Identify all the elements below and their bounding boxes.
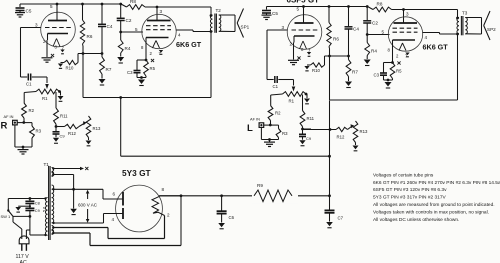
svg-text:C3: C3 <box>374 73 380 78</box>
svg-text:R8: R8 <box>377 2 383 7</box>
svg-text:4: 4 <box>178 33 181 38</box>
svg-text:R5: R5 <box>150 66 156 71</box>
svg-text:R8: R8 <box>130 0 136 4</box>
svg-text:T3: T3 <box>462 11 468 16</box>
svg-text:6K6 GT: 6K6 GT <box>176 40 202 49</box>
svg-text:6K6 GT PIN #1 260v PIN #4 270v: 6K6 GT PIN #1 260v PIN #4 270v PIN #2 6.… <box>373 180 500 186</box>
svg-text:R4: R4 <box>125 46 131 51</box>
svg-text:5: 5 <box>50 4 53 9</box>
svg-text:R2: R2 <box>275 111 281 116</box>
svg-text:R3: R3 <box>282 131 288 136</box>
svg-text:6SF5 GT: 6SF5 GT <box>287 0 320 5</box>
svg-text:R6: R6 <box>333 37 339 42</box>
svg-text:C6: C6 <box>229 215 235 220</box>
svg-text:C9: C9 <box>35 208 40 213</box>
svg-text:Voltages of certain tube pins: Voltages of certain tube pins <box>373 172 434 178</box>
svg-text:5.6: 5.6 <box>43 207 47 212</box>
svg-text:6SF5 GT PIN #3 120v PIN #8 6.3: 6SF5 GT PIN #3 120v PIN #8 6.3v <box>373 187 447 193</box>
svg-text:SW 1: SW 1 <box>1 214 12 219</box>
svg-text:3: 3 <box>406 12 409 17</box>
svg-text:R5: R5 <box>396 69 402 74</box>
svg-text:R13: R13 <box>360 129 368 134</box>
svg-text:R10: R10 <box>66 66 74 71</box>
svg-text:3: 3 <box>35 23 38 28</box>
svg-text:6K6 GT: 6K6 GT <box>423 43 449 52</box>
svg-text:AF IN: AF IN <box>250 117 260 122</box>
svg-text:C5: C5 <box>272 11 278 16</box>
svg-text:All voltages DC unless otherwi: All voltages DC unless otherwise shown. <box>373 217 459 223</box>
svg-text:C7: C7 <box>338 216 344 221</box>
svg-text:C3: C3 <box>127 70 133 75</box>
svg-text:R1: R1 <box>42 96 48 101</box>
svg-text:4: 4 <box>425 35 428 40</box>
svg-text:3: 3 <box>160 9 163 14</box>
svg-text:600 V AC: 600 V AC <box>78 203 98 208</box>
svg-text:2: 2 <box>43 39 46 44</box>
svg-text:R11: R11 <box>307 116 315 121</box>
svg-text:R11: R11 <box>60 114 68 119</box>
svg-text:R1: R1 <box>289 99 295 104</box>
svg-text:L: L <box>247 123 253 134</box>
svg-text:All voltages are measured from: All voltages are measured from ground to… <box>373 202 495 208</box>
svg-text:8: 8 <box>162 187 165 192</box>
svg-text:5Y3 GT PIN #3 317v PIN #2 317V: 5Y3 GT PIN #3 317v PIN #2 317V <box>373 195 447 201</box>
svg-text:AF IN: AF IN <box>4 114 14 119</box>
svg-text:3: 3 <box>282 25 285 30</box>
svg-text:C8: C8 <box>35 201 40 206</box>
svg-text:R9: R9 <box>257 183 263 188</box>
svg-text:5: 5 <box>382 30 385 35</box>
svg-text:C2: C2 <box>372 21 378 26</box>
svg-text:R13: R13 <box>93 126 101 131</box>
svg-text:R7: R7 <box>106 67 112 72</box>
svg-text:C1: C1 <box>273 84 279 89</box>
svg-text:R4: R4 <box>371 49 377 54</box>
svg-text:R6: R6 <box>87 34 93 39</box>
svg-text:R3: R3 <box>36 129 42 134</box>
svg-text:R10: R10 <box>312 68 320 73</box>
svg-text:C4: C4 <box>353 27 359 32</box>
svg-text:C4: C4 <box>107 24 113 29</box>
svg-text:T2: T2 <box>216 8 222 13</box>
svg-text:C2: C2 <box>126 18 132 23</box>
svg-text:5: 5 <box>135 27 138 32</box>
svg-text:SP1: SP1 <box>241 25 250 30</box>
svg-text:R12: R12 <box>337 135 345 140</box>
svg-text:6: 6 <box>113 192 116 197</box>
svg-text:5Y3 GT: 5Y3 GT <box>122 168 151 178</box>
svg-text:C9: C9 <box>306 136 312 141</box>
svg-text:5: 5 <box>297 7 300 12</box>
svg-text:4: 4 <box>112 217 115 222</box>
svg-text:C5: C5 <box>26 9 32 14</box>
svg-text:2: 2 <box>167 213 170 218</box>
svg-text:R: R <box>1 121 8 132</box>
svg-text:C1: C1 <box>26 82 32 87</box>
svg-text:R12: R12 <box>68 131 76 136</box>
svg-text:C9: C9 <box>60 134 66 139</box>
svg-text:2: 2 <box>290 42 293 47</box>
svg-text:SP2: SP2 <box>487 27 496 32</box>
svg-text:Voltages taken with controls i: Voltages taken with controls in max posi… <box>373 210 489 216</box>
svg-text:R7: R7 <box>352 70 358 75</box>
svg-text:R2: R2 <box>29 108 35 113</box>
